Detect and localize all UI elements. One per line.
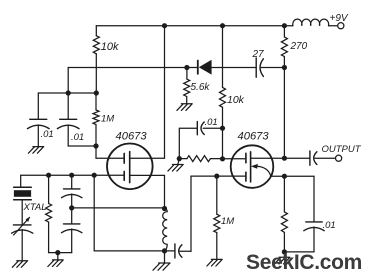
svg-text:.01: .01 (323, 220, 336, 231)
svg-text:XTAL: XTAL (23, 202, 47, 213)
wire Q1 drain column to +9V rail (164, 26, 166, 159)
wire choke to supply terminal (329, 25, 338, 27)
resistor R6 5.6k (186, 68, 188, 80)
resistor R8 source bias (283, 176, 285, 212)
transistor Q2 substrate arrow (257, 166, 271, 176)
svg-text:OUTPUT: OUTPUT (322, 144, 362, 155)
ground below C1 (28, 147, 43, 154)
ground tank bottom (153, 251, 170, 270)
wire Q2 gate1 lead (223, 158, 246, 160)
node divider tap (69, 205, 74, 210)
wire Q1 source lead (130, 174, 165, 176)
wire drain to output cap (284, 157, 310, 159)
ground below 1M (207, 259, 222, 266)
svg-text:1M: 1M (221, 216, 234, 227)
transistor Q2 40673 body (231, 145, 274, 188)
node y93 / rail2 corner (66, 90, 71, 95)
svg-text:5.6k: 5.6k (191, 82, 211, 93)
svg-text:10k: 10k (227, 94, 245, 106)
node gate2 / divider caps (69, 173, 74, 178)
node Q2 gate1 (220, 156, 225, 161)
wire C5 up to Q2 gate2 line (190, 176, 192, 251)
wire C2 to gate1 node (68, 145, 96, 147)
node top rail / 270 resistor (282, 23, 287, 28)
wire second rail (diode/AGC line) (68, 67, 198, 69)
transistor Q1 gate bars (123, 153, 125, 163)
ground bottom-left (48, 253, 63, 267)
svg-text:1M: 1M (101, 114, 114, 125)
capacitor C-A feedback divider top (71, 175, 73, 189)
wire gate2 line (XTAL line) (21, 174, 125, 176)
node gate2 / ground return column (92, 173, 97, 178)
capacitor C1 .01 (37, 93, 39, 119)
wire bottom tank line (94, 250, 175, 252)
diode D1 (cathode bar left, points left) (197, 61, 199, 74)
wire Q1 drain lead (130, 157, 165, 159)
node R5 column / C3 (220, 126, 225, 131)
svg-text:.01: .01 (205, 117, 218, 128)
svg-text:270: 270 (290, 41, 308, 52)
crystal XTAL (20, 175, 22, 187)
wire bypass cap to ground node (284, 251, 314, 253)
capacitor C2 .01 (67, 93, 69, 119)
capacitor C7 27 (255, 58, 257, 77)
node source ground (282, 249, 287, 254)
ground below 5.6k (177, 104, 192, 111)
wire diode anode to 27pF (212, 67, 257, 69)
capacitor C-out output coupling (309, 151, 311, 165)
transistor Q2 channel (250, 152, 252, 182)
svg-text:.01: .01 (41, 129, 54, 140)
wire rail2 left corner down (67, 68, 69, 94)
wire Q2 drain lead (251, 157, 285, 159)
node 27 cap / 270 bottom (282, 65, 287, 70)
variable capacitor C6 trimmer (13, 224, 31, 226)
resistor R4 (gate series) (179, 158, 187, 160)
node gate2 / R3 (46, 173, 51, 178)
resistor R7 270 (283, 26, 285, 37)
node top rail / Q1 drain column (162, 23, 167, 28)
node y93 / 10k-1M column (94, 90, 99, 95)
transistor Q1 channel (129, 152, 131, 183)
resistor R5 10k (220, 87, 226, 107)
wire gate bias node (y=93) (38, 92, 96, 94)
capacitor C5 coupling to Q2 gate2 (174, 244, 176, 258)
svg-text:10k: 10k (101, 41, 119, 53)
inductor L1 (RF choke to +9V) (293, 19, 329, 26)
node gate1 of Q1 (93, 143, 98, 148)
wire top +9V rail (96, 25, 293, 27)
svg-text:SeekIC.com: SeekIC.com (246, 251, 362, 274)
wire divider tap to Q1 source (72, 207, 165, 209)
wire source node to bypass cap corner (284, 175, 314, 177)
ground below R8 (275, 252, 290, 264)
node Q2 source (282, 174, 287, 179)
capacitor C3 .01 bypass (203, 127, 222, 129)
node Q2 drain / output (282, 156, 287, 161)
op-amp Q1 40673 body (107, 144, 153, 190)
resistor R2 1M (95, 93, 97, 110)
svg-text:+9V: +9V (330, 13, 349, 24)
wire gate1 jog into Q1 (96, 146, 124, 158)
wire 270/27 node down to drain (283, 68, 285, 159)
svg-text:.01: .01 (71, 132, 84, 143)
wire Q1 source down to tank (164, 175, 166, 208)
node gate2 Q2 / 1M (214, 174, 219, 179)
wire 10k R5 column (222, 26, 224, 88)
transistor Q2 gate bars (245, 153, 247, 162)
wire Q2 source lead (271, 175, 284, 177)
capacitor C-B feedback divider bottom (71, 208, 73, 224)
node rail2 / 5.6k and diode cathode (184, 65, 189, 70)
wire Q2 gate2 line (191, 175, 246, 177)
inductor L2 tank coil (163, 209, 168, 251)
resistor R9 1M (216, 176, 218, 214)
ground at R4 left (168, 159, 183, 172)
node bottom-left ground tap (55, 250, 60, 255)
wire gate2 ground return (93, 175, 95, 251)
svg-text:40673: 40673 (116, 131, 148, 143)
terminal OUTPUT (336, 155, 342, 161)
ground below trimmer (12, 261, 27, 268)
node tank top (162, 206, 167, 211)
node divider ground / R4 left (177, 156, 182, 161)
wire bottom-left node (49, 252, 72, 254)
capacitor C8 .01 source bypass (313, 176, 315, 222)
resistor R1 10k (95, 26, 97, 36)
svg-text:40673: 40673 (238, 131, 270, 143)
terminal +9V (338, 23, 344, 29)
node top rail / 10k R5 column (220, 23, 225, 28)
svg-text:27: 27 (252, 49, 265, 60)
resistor R3 (gate leak) (48, 175, 50, 203)
node tank bottom (162, 248, 167, 253)
